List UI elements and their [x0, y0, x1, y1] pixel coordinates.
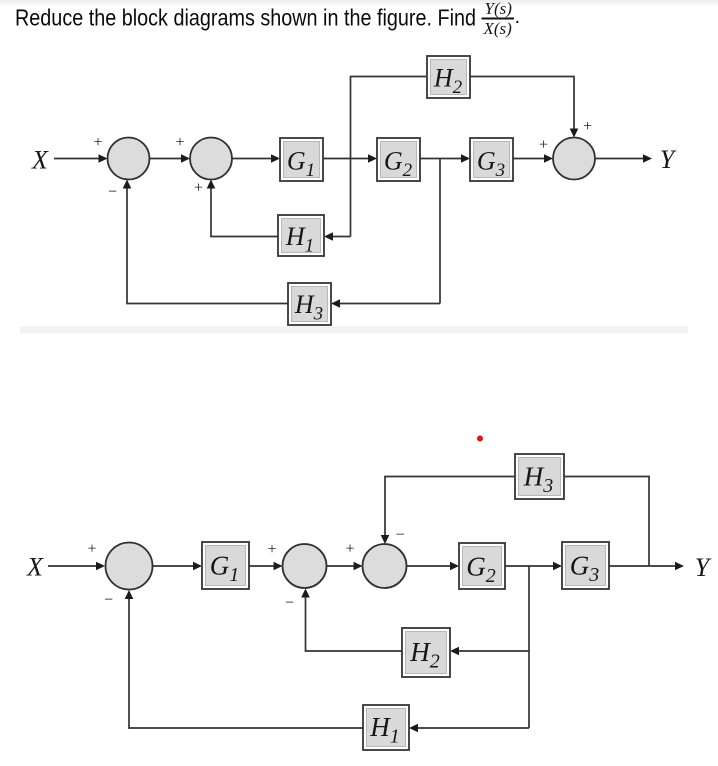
wire H3 to S1 bottom — [123, 180, 288, 304]
wire H1 to S1 bottom d2 — [125, 590, 363, 728]
svg-text:Reduce the block diagrams show: Reduce the block diagrams shown in the f… — [15, 5, 476, 31]
wire H2 to S2 bottom d2 — [301, 589, 402, 652]
svg-text:+: + — [267, 541, 276, 558]
wire G3 to S3 — [513, 154, 553, 163]
block G2 d1 — [377, 138, 420, 181]
wire takeoff after G3 up to H3 d2 — [648, 476, 650, 566]
block H1 d2 — [363, 705, 409, 750]
block H2 d1 — [427, 56, 470, 98]
fraction Y(s)/X(s) — [482, 0, 521, 38]
wire H2 to S3 top — [470, 77, 578, 138]
red dot marker — [477, 436, 483, 442]
svg-text:+: + — [175, 134, 184, 151]
wire G3 to Y with takeoff d2 — [609, 562, 684, 571]
wire vertical takeoff after G2 down d2 — [528, 566, 530, 728]
svg-text:X: X — [31, 146, 49, 175]
wire H3 to S3 top d2 — [381, 477, 515, 545]
svg-text:X(s): X(s) — [483, 19, 513, 38]
wire S3 to Y — [595, 154, 652, 163]
wire S2 to G1 — [232, 154, 280, 163]
svg-text:−: − — [395, 527, 404, 544]
wire G2 to G3 with takeoff node — [420, 154, 470, 163]
wire G1 to G2 with takeoff node — [323, 154, 377, 163]
block H1 d1 — [278, 215, 324, 257]
svg-text:−: − — [108, 184, 117, 201]
svg-text:+: + — [194, 180, 203, 197]
svg-text:Y: Y — [695, 553, 712, 582]
summing junction S1 d1 — [108, 138, 150, 180]
svg-text:Y(s): Y(s) — [485, 0, 513, 18]
svg-text:+: + — [583, 118, 592, 135]
block H2 d2 — [402, 628, 450, 677]
summing junction S2 d1 — [190, 138, 232, 180]
wire X to S1 d2 — [48, 562, 105, 571]
wire G1 to S2 d2 — [249, 562, 283, 571]
wire into H3 right d2 — [564, 476, 650, 478]
summing junction S3 d1 — [553, 138, 595, 180]
svg-text:−: − — [104, 592, 113, 609]
svg-text:−: − — [285, 595, 294, 612]
wire H1 to S2 bottom — [207, 180, 278, 237]
wire into H1 right d2 — [409, 724, 529, 733]
wire S1 to S2 — [150, 154, 191, 163]
block G1 d1 — [280, 138, 323, 181]
wire takeoff to H2 input — [350, 76, 427, 78]
wire takeoff down to H3 input — [331, 299, 440, 308]
wire S1 to G1 d2 — [153, 562, 203, 571]
svg-text:Y: Y — [660, 145, 677, 174]
wire S3 to G2 d2 — [407, 562, 460, 571]
wire X to S1 — [54, 154, 108, 163]
wire into H2 right d2 — [450, 647, 529, 656]
divider band — [20, 327, 688, 334]
block H3 d1 — [288, 283, 331, 325]
block G3 d2 — [562, 542, 609, 589]
summing junction S3 d2 — [363, 544, 407, 588]
block H3 d2 — [515, 454, 564, 499]
title text — [15, 5, 476, 31]
wire G2 to G3 with takeoff d2 — [505, 562, 562, 571]
wire vertical takeoff after G1 (to H2 up, to H1 down) — [350, 77, 352, 237]
wire takeoff down to H1 input — [324, 232, 351, 241]
top edge shading — [0, 0, 718, 7]
summing junction S1 d2 — [106, 543, 153, 590]
wire S2 to S3 d2 — [327, 562, 363, 571]
svg-text:+: + — [93, 134, 102, 151]
summing junction S2 d2 — [283, 544, 327, 588]
svg-text:+: + — [87, 541, 96, 558]
block G3 d1 — [470, 138, 513, 181]
svg-text:+: + — [539, 137, 548, 154]
svg-text:X: X — [26, 553, 44, 582]
block G1 d2 — [202, 542, 249, 589]
svg-text:.: . — [515, 6, 521, 28]
wire vertical takeoff after G2 down to H3 — [439, 159, 441, 304]
block G2 d2 — [459, 543, 505, 589]
svg-text:+: + — [345, 541, 354, 558]
